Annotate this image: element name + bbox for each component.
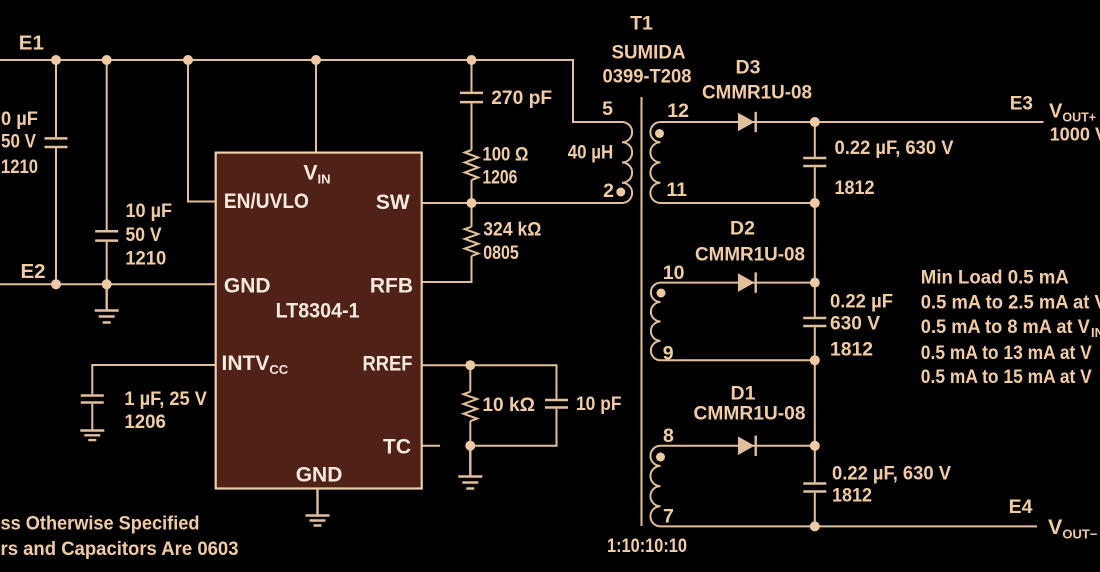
svg-text:E1: E1 [19,31,44,54]
wire C3 270pF top lead [471,60,473,92]
transformer T1 secondary winding 1 (pins 12-11) [650,122,660,203]
svg-text:0.22 µF: 0.22 µF [830,291,893,313]
svg-text:630 V: 630 V [830,313,880,335]
svg-text:10 µF: 10 µF [126,200,173,222]
wire E2 ground rail to GND pin [0,283,217,285]
node: junction E1 rail / EN divider [183,55,193,65]
svg-text:0.5 mA to 8 mA at V: 0.5 mA to 8 mA at V [921,316,1090,338]
diode D1 CMMR1U-08 [738,436,756,456]
svg-text:TC: TC [383,436,411,459]
transformer T1 secondary winding 2 (pins 10-9) [651,283,661,361]
wire C4 to ground [91,404,93,431]
wire RREF net to C5 10pF [217,365,557,399]
svg-text:40 µH: 40 µH [568,141,614,163]
wire secondary pin 7 to E4 output rail [661,525,1038,527]
node: junction E2 rail / C2 / ground [102,279,112,289]
svg-text:SUMIDA: SUMIDA [612,42,686,64]
ground symbol below IC GND [306,489,330,526]
transformer secondary 2 phasing dot [657,289,666,298]
transformer T1 core [641,97,643,526]
svg-text:0.5 mA to 15 mA at V: 0.5 mA to 15 mA at V [921,366,1092,388]
node: junction E2 rail / C1 [51,279,61,289]
node: D2 cathode / C7 [810,278,820,288]
svg-text:100 Ω: 100 Ω [482,144,528,166]
svg-text:E2: E2 [21,260,46,283]
svg-text:EN/UVLO: EN/UVLO [224,190,309,213]
wire C2 top lead [106,60,108,230]
svg-text:1812: 1812 [830,338,873,360]
svg-text:D3: D3 [736,56,761,78]
wire C1 bottom lead [55,148,57,284]
svg-text:8: 8 [663,425,674,447]
wire R3 bottom lead [469,421,471,446]
ground symbol at E2 rail [95,284,119,322]
wire secondary pin 10 through D2 [661,282,815,284]
svg-text:D1: D1 [731,383,756,405]
node: D1 cathode / C8 [810,441,820,451]
node: winding1 return / C6 [810,198,820,208]
svg-text:1 µF, 25 V: 1 µF, 25 V [124,388,206,410]
wire C2 bottom lead [106,242,108,284]
node: junction E1 rail / VIN [311,55,321,65]
node: junction E1 rail / C2 [102,55,112,65]
svg-text:270 pF: 270 pF [491,87,552,109]
svg-text:E3: E3 [1010,94,1033,115]
svg-text:50 V: 50 V [1,131,36,153]
node R3/C5 ground junction [465,441,475,451]
capacitor C4 1uF 25V plates [81,396,104,403]
wire secondary pin 9 return [661,359,815,361]
capacitor C7 0.22uF 630V plates [803,318,826,326]
svg-text:1206: 1206 [124,411,166,433]
ground symbol below C4 [80,430,104,440]
node: winding3 return / C8 / E4 rail [810,521,820,531]
svg-text:12: 12 [667,100,689,122]
transformer primary phasing dot [616,188,625,197]
svg-text:1812: 1812 [835,177,875,199]
wire R2 to RFB pin [422,256,472,282]
node: winding2 return / C7 [810,355,820,365]
capacitor C8 0.22uF 630V plates [803,484,826,492]
svg-text:ss Otherwise Specified: ss Otherwise Specified [1,513,200,535]
svg-text:RFB: RFB [370,274,413,297]
svg-text:10 kΩ: 10 kΩ [482,394,535,416]
wire output bus C8 bottom lead [814,493,816,527]
svg-text:1000 V: 1000 V [1050,124,1100,145]
node SW junction [467,198,477,208]
node: junction E1 rail / C3 [467,55,477,65]
IC U1 LT8304-1 body [216,153,422,489]
svg-text:10: 10 [663,262,685,284]
svg-text:10 pF: 10 pF [576,393,622,415]
svg-text:1812: 1812 [832,485,872,507]
diode D3 CMMR1U-08 [738,112,756,132]
svg-text:0.5 mA to 2.5 mA at V: 0.5 mA to 2.5 mA at V [921,292,1100,314]
wire secondary pin 8 through D1 [661,445,815,447]
svg-text:E4: E4 [1009,496,1033,518]
svg-text:5: 5 [602,98,613,120]
svg-text:GND: GND [224,274,271,297]
svg-text:CMMR1U-08: CMMR1U-08 [694,402,806,424]
svg-text:0399-T208: 0399-T208 [603,66,692,88]
wire secondary pin 11 return [661,202,815,204]
svg-text:1:10:10:10: 1:10:10:10 [607,535,687,557]
svg-text:T1: T1 [630,13,653,35]
svg-text:SW: SW [376,191,410,214]
wire C3 to R1 top lead [471,103,473,150]
svg-text:RREF: RREF [363,353,413,376]
wire output bus C6 top lead [814,122,816,157]
wire SW node to R2 lead [471,203,473,227]
resistor R3 10k [464,392,478,421]
svg-text:2: 2 [603,180,614,202]
svg-text:0805: 0805 [483,242,519,264]
svg-text:7: 7 [663,506,674,528]
resistor R1 100 ohm 1206 [465,150,479,180]
wire output bus C7 to C8 [814,327,816,482]
svg-text:0.22 µF, 630 V: 0.22 µF, 630 V [835,137,954,159]
svg-text:D2: D2 [730,218,755,240]
node: junction E1 rail / C1 [51,55,61,65]
svg-text:LT8304-1: LT8304-1 [276,300,360,323]
svg-text:11: 11 [666,179,687,201]
diode D2 CMMR1U-08 [738,272,756,292]
svg-text:0 µF: 0 µF [1,108,38,130]
capacitor C3 270pF plates [460,93,483,102]
wire C5 bottom to ground node [470,409,556,446]
transformer secondary 3 phasing dot [656,453,665,462]
transformer secondary 1 phasing dot [655,129,664,138]
svg-text:1210: 1210 [1,156,38,178]
node RREF junction [465,360,475,370]
capacitor C6 0.22uF 630V plates [803,158,826,166]
wire EN/UVLO pin to input rail [188,60,217,202]
svg-text:Min Load 0.5 mA: Min Load 0.5 mA [921,267,1069,289]
ground symbol below R3 [458,446,482,489]
wire secondary pin 12 through D3 to E3 output rail [661,121,1044,123]
svg-text:GND: GND [296,463,343,486]
svg-text:0.5 mA to 13 mA at V: 0.5 mA to 13 mA at V [921,342,1092,364]
svg-text:9: 9 [663,343,674,365]
wire C1 top lead [55,60,57,137]
wire output bus C6 to C7 [814,167,816,317]
wire E1 input rail to transformer primary pin 5 [0,60,622,122]
wire RREF node to R3 top lead [469,365,471,392]
svg-text:CMMR1U-08: CMMR1U-08 [695,244,805,266]
svg-text:1210: 1210 [125,247,166,269]
svg-text:324 kΩ: 324 kΩ [483,218,541,240]
capacitor C1 10uF 50V 1210 plates [45,138,68,147]
wire VIN pin to input rail [315,60,317,153]
svg-text:IN: IN [1091,325,1100,340]
svg-text:rs and Capacitors Are 0603: rs and Capacitors Are 0603 [1,538,239,560]
wire R1 to SW node lead [471,180,473,203]
svg-text:50 V: 50 V [126,224,162,246]
capacitor C5 10pF plates [545,400,568,408]
wire INTVCC pin to C4 1uF [92,365,217,394]
node: D3 cathode / C6 / E3 rail [810,117,820,127]
transformer T1 secondary winding 3 (pins 8-7) [650,446,660,527]
svg-text:0.22 µF, 630 V: 0.22 µF, 630 V [832,462,951,484]
resistor R2 324k 0805 [465,227,479,256]
transformer T1 primary winding 40uH (pins 5-2) [622,122,632,203]
wire SW net: primary pin 2 to SW pin [422,202,622,204]
capacitor C2 10uF 50V 1210 plates [95,231,118,240]
wire TC pin stub (unconnected) [422,445,440,447]
svg-text:CMMR1U-08: CMMR1U-08 [702,81,812,103]
svg-text:1206: 1206 [482,167,517,189]
